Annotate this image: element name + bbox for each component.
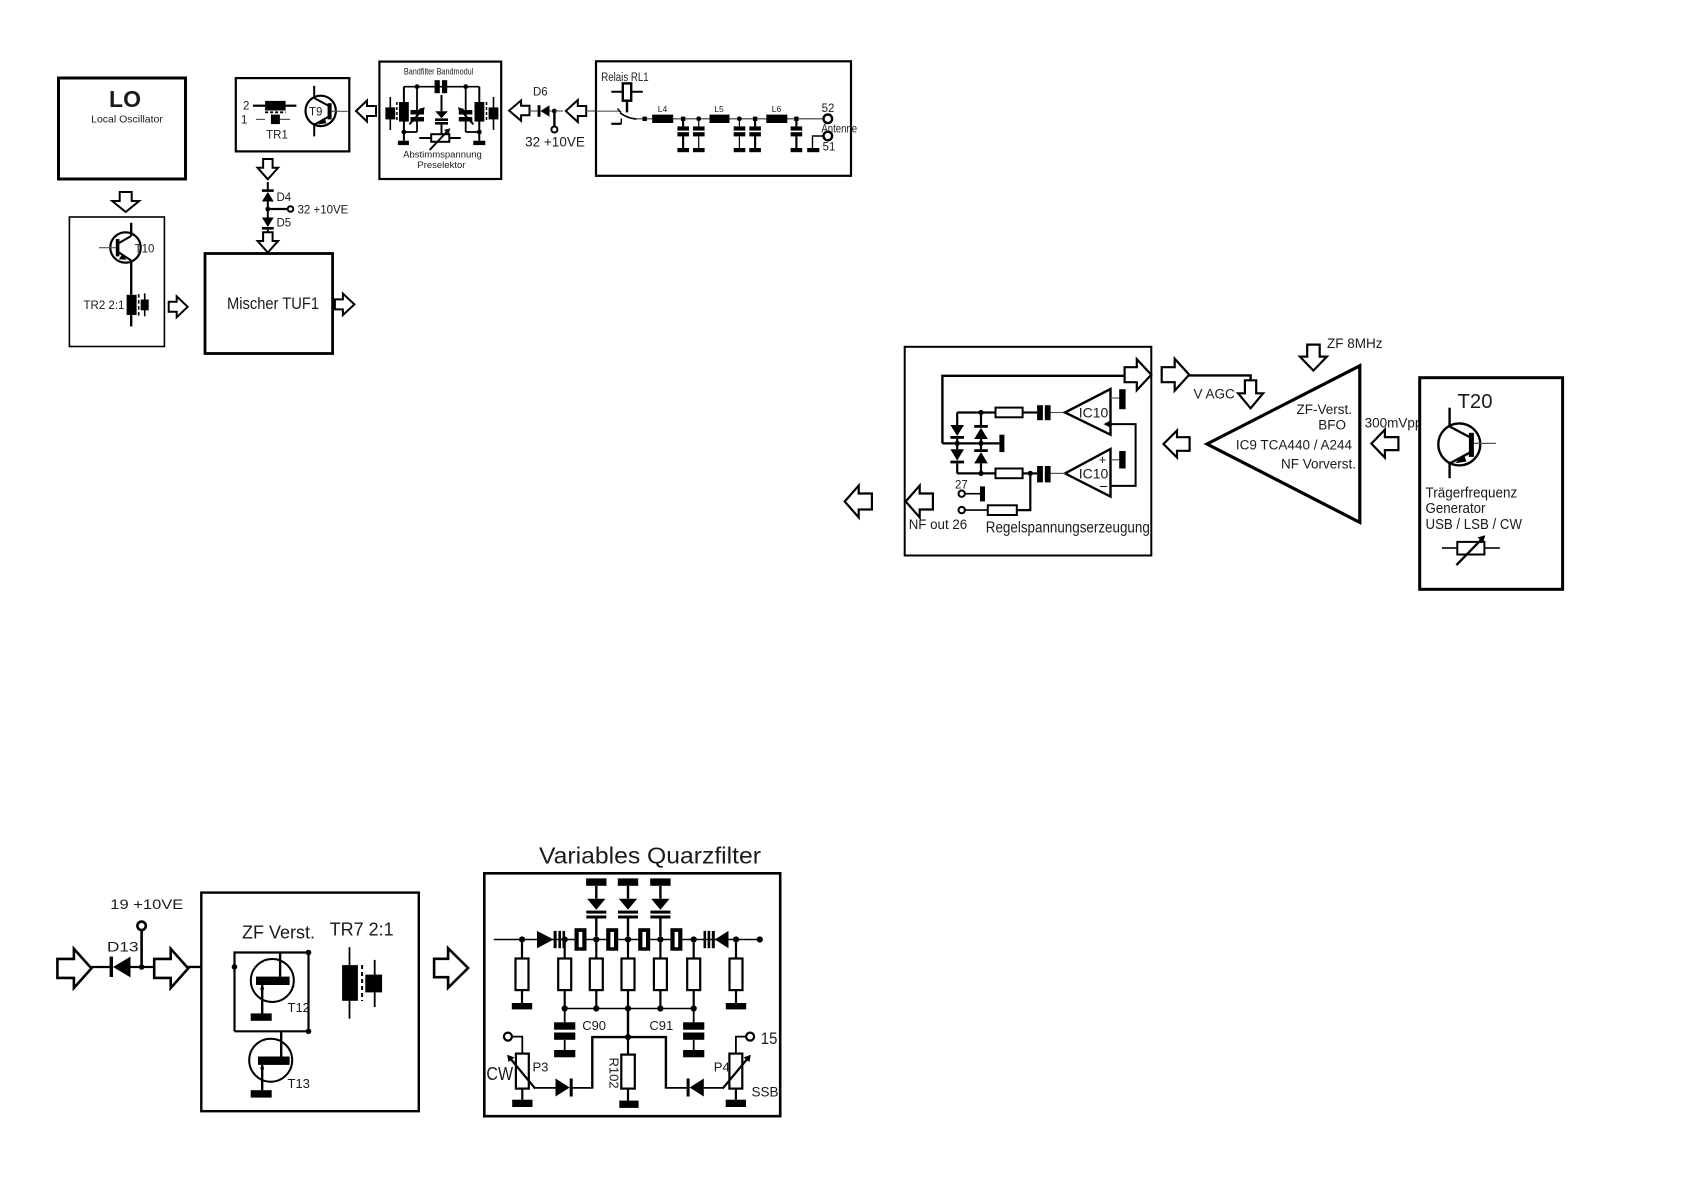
wire cascode frame — [235, 953, 309, 1032]
svg-text:T9: T9 — [309, 107, 322, 119]
op-amp IC10 lower — [1065, 449, 1111, 497]
wire arrow to D6 — [530, 110, 539, 112]
wire res to cap lower — [1023, 472, 1038, 474]
svg-text:TR7 2:1: TR7 2:1 — [330, 920, 394, 940]
varactor diode center — [435, 95, 448, 138]
wire opamp low input stub — [1111, 459, 1120, 461]
svg-text:15: 15 — [761, 1029, 778, 1048]
node right top — [463, 84, 468, 89]
diode D5 — [262, 209, 291, 233]
block Bandfilter Bandmodul — [379, 62, 501, 179]
svg-text:32 +10VE: 32 +10VE — [298, 205, 349, 217]
wire det top rail — [957, 411, 995, 413]
diode detector D-a1 — [950, 413, 964, 444]
node cap 1b — [696, 116, 701, 121]
svg-text:NF Vorverst.: NF Vorverst. — [1281, 457, 1356, 472]
wire into D4 — [267, 182, 269, 191]
wire to arrow2 — [142, 966, 155, 968]
capacitor shunt 3 — [791, 121, 803, 152]
node right bottom — [477, 130, 482, 135]
transformer TR2 2:1 — [84, 293, 149, 326]
svg-text:T13: T13 — [288, 1076, 310, 1091]
resistor R102 — [607, 1037, 635, 1101]
flow arrow IC9 out — [1164, 431, 1190, 458]
svg-text:C90: C90 — [582, 1018, 606, 1033]
node cap 2b — [753, 117, 757, 121]
svg-text:300mVpp: 300mVpp — [1365, 416, 1423, 431]
node after L5 — [737, 116, 742, 121]
capacitor coupling upper — [1037, 405, 1051, 420]
flow arrow into TR1 box — [356, 101, 376, 122]
node det bottom b — [978, 471, 983, 476]
node T13 drain — [306, 1029, 312, 1035]
block Variables Quarzfilter — [484, 873, 780, 1116]
capacitor mid rail — [999, 435, 1004, 452]
svg-text:V AGC: V AGC — [1194, 387, 1236, 402]
resistor term 26 — [988, 473, 1031, 515]
svg-text:Regelspannungserzeugung: Regelspannungserzeugung — [986, 520, 1150, 537]
node quartz line 2 — [562, 936, 568, 942]
flow arrow TR2 to Mischer — [169, 296, 188, 317]
svg-text:NF out 26: NF out 26 — [909, 517, 968, 532]
resistor shunt 6 — [687, 943, 700, 1009]
capacitor shunt 1b — [693, 121, 705, 152]
svg-text:T12: T12 — [288, 1000, 310, 1015]
node bias bus 3 — [625, 1005, 631, 1011]
ground resistor 1 — [512, 1003, 532, 1009]
capacitor C91 — [649, 1009, 704, 1058]
wire P3 wiper — [535, 1087, 555, 1089]
wire cap to opamp upper — [1051, 412, 1065, 414]
node after L4 — [681, 117, 685, 121]
flow arrow AGC out box edge — [1125, 359, 1152, 390]
wire opamp up input stub — [1111, 397, 1120, 399]
node after L6 — [794, 117, 798, 121]
crystal Q4 — [670, 928, 682, 951]
wire top rail bandfilter — [404, 86, 479, 88]
svg-text:P3: P3 — [533, 1060, 549, 1075]
node quartz out — [757, 936, 763, 942]
svg-text:2: 2 — [243, 101, 249, 113]
terminal 27 — [955, 480, 980, 497]
node lower branch — [1028, 471, 1033, 476]
svg-text:1: 1 — [241, 115, 247, 127]
ground P3 — [512, 1100, 532, 1107]
transistor T9 — [306, 86, 348, 137]
node before L4 — [643, 117, 647, 121]
node bias bus 5 — [691, 1005, 697, 1011]
node det top b — [978, 410, 983, 415]
wire AGC top rail — [942, 376, 1124, 444]
flow arrow LO to T10 block — [112, 192, 139, 212]
resistor upper — [996, 408, 1023, 418]
trimmer capacitor left — [409, 87, 424, 132]
flow arrow ZF Verst out — [434, 948, 468, 988]
feedback wire upper — [1104, 420, 1136, 486]
svg-text:D5: D5 — [277, 218, 292, 230]
capacitor opamp lower — [1119, 451, 1125, 469]
resistor lower — [996, 469, 1023, 479]
varactor stack 1 — [586, 878, 606, 936]
svg-text:Relais RL1: Relais RL1 — [601, 72, 648, 84]
wire res to cap upper — [1023, 411, 1038, 413]
wire quartz main line — [494, 939, 760, 941]
diode series right — [712, 931, 729, 948]
terminal 26 — [959, 507, 988, 513]
svg-text:+: + — [1099, 453, 1106, 467]
svg-text:TR1: TR1 — [266, 130, 288, 142]
terminal 51 — [823, 132, 836, 154]
svg-text:Variables Quarzfilter: Variables Quarzfilter — [539, 843, 761, 869]
potentiometer P4 — [714, 1054, 751, 1100]
flow arrow ZF input — [57, 949, 91, 988]
node bias bus 2 — [593, 1005, 599, 1011]
inductor L4 — [652, 104, 673, 123]
svg-text:51: 51 — [823, 142, 836, 154]
node D6 junction — [552, 109, 563, 114]
wire gnd right — [478, 132, 480, 141]
flow arrow AGC to VAGC — [1162, 359, 1190, 391]
node bias bus 4 — [657, 1005, 663, 1011]
potentiometer Abstimmspannung — [419, 128, 461, 150]
svg-text:CW: CW — [486, 1064, 513, 1084]
capacitor C90 — [554, 1009, 606, 1058]
svg-text:−: − — [1099, 479, 1108, 496]
svg-text:IC10: IC10 — [1079, 405, 1109, 421]
wire cap to opamp lower — [1051, 472, 1065, 474]
terminal 15 — [736, 1029, 777, 1054]
ground left — [398, 141, 409, 145]
capacitor coupling top — [435, 80, 448, 93]
flow arrow V AGC down — [1238, 380, 1263, 408]
node center tap — [625, 1034, 631, 1040]
varactor stack 2 — [618, 878, 638, 936]
block Relais antenna filter — [596, 61, 851, 176]
wire main line filter — [637, 118, 824, 120]
svg-text:L4: L4 — [658, 104, 668, 114]
capacitor shunt 2a — [734, 121, 746, 152]
svg-text:L6: L6 — [772, 104, 782, 114]
svg-text:SSB: SSB — [752, 1085, 779, 1100]
svg-text:D4: D4 — [277, 192, 292, 204]
capacitor shunt 1a — [677, 121, 689, 152]
flow arrow bandfilter input — [509, 100, 529, 120]
transistor T20 — [1438, 408, 1496, 479]
node det mid a — [955, 441, 960, 446]
transistor T10 — [99, 223, 154, 263]
capacitor term 27 — [980, 486, 985, 501]
ground T12 — [251, 1013, 272, 1020]
node quartz line 3 — [593, 936, 599, 942]
amplifier IC9 TCA440 triangle — [1207, 366, 1360, 523]
node T12 drain — [306, 950, 312, 956]
block T10 TR2 buffer — [69, 217, 164, 347]
wire left rail — [403, 87, 405, 132]
svg-text:T20: T20 — [1458, 391, 1493, 413]
resistor shunt 7 — [730, 943, 743, 1003]
op-amp IC10 upper — [1065, 389, 1111, 435]
relay coil RL1 — [611, 83, 643, 112]
diode detector D-b2 — [974, 443, 988, 473]
wire right rail — [478, 87, 480, 132]
capacitor coupling lower — [1037, 466, 1051, 482]
diode detector D-b1 — [974, 413, 988, 444]
ground P4 — [726, 1100, 746, 1107]
inductor L6 — [766, 104, 787, 123]
svg-text:Generator: Generator — [1426, 500, 1486, 517]
diode detector D-a2 — [950, 443, 964, 473]
ground T13 — [251, 1090, 272, 1097]
transformer right winding — [475, 97, 499, 130]
svg-text:Local Oscillator: Local Oscillator — [91, 114, 163, 126]
svg-text:ZF-Verst.: ZF-Verst. — [1296, 402, 1352, 417]
wire center tap heavy — [592, 1009, 666, 1089]
variable resistor T20 — [1442, 535, 1500, 565]
transformer left winding — [385, 97, 408, 130]
flow arrow NF out outer — [845, 486, 872, 518]
terminal 19 +10VE — [137, 922, 145, 967]
node quartz line 5 — [657, 936, 663, 942]
ground 51 — [807, 148, 819, 152]
terminal 52 — [822, 103, 835, 123]
svg-text:ZF 8MHz: ZF 8MHz — [1327, 336, 1383, 351]
flow arrow Mischer output — [335, 294, 355, 316]
flow arrow relais to D6 — [566, 100, 586, 122]
diode D4 — [262, 189, 292, 209]
inductor L5 — [710, 104, 730, 123]
resistor shunt 1 — [516, 943, 529, 1003]
svg-text:ZF Verst.: ZF Verst. — [242, 923, 315, 943]
block Regelspannungserzeugung — [905, 347, 1152, 556]
wire gnd left — [403, 132, 405, 141]
capacitor opamp upper — [1119, 389, 1125, 409]
node quartz line 6 — [691, 936, 697, 942]
flow arrow into ZF Verst — [154, 949, 188, 988]
svg-text:Preselektor: Preselektor — [417, 160, 465, 171]
transformer TR1 — [253, 101, 297, 142]
wire diode to P4 wiper — [704, 1087, 723, 1089]
svg-text:D6: D6 — [533, 87, 548, 99]
block Mischer TUF1 — [205, 254, 333, 354]
diode CW side — [556, 1079, 573, 1097]
wire into ZF box — [188, 966, 234, 968]
node quartz line 4 — [625, 936, 631, 942]
svg-text:R102: R102 — [607, 1058, 622, 1089]
node quartz line 1 — [519, 936, 525, 942]
terminal CW — [504, 1033, 522, 1054]
svg-text:LO: LO — [109, 86, 141, 112]
ground resistor 7 — [726, 1003, 746, 1009]
block LO Local Oscillator — [59, 78, 186, 179]
diode D13 — [107, 939, 142, 978]
node det mid b — [978, 441, 983, 446]
svg-text:C91: C91 — [649, 1018, 673, 1033]
svg-text:D13: D13 — [107, 939, 139, 955]
transformer TR7 — [342, 947, 382, 1019]
svg-text:L5: L5 — [714, 104, 724, 114]
svg-text:IC9 TCA440 / A244: IC9 TCA440 / A244 — [1236, 438, 1353, 453]
node left top — [415, 84, 420, 89]
resistor shunt 5 — [654, 943, 667, 1009]
resistor shunt 3 — [590, 943, 603, 1009]
relay switch contact — [596, 109, 637, 124]
wire T10 emitter to TR2 — [130, 261, 132, 295]
node bias bus 1 — [562, 1005, 568, 1011]
wire bottom left — [404, 131, 417, 133]
block ZF Verst — [201, 893, 418, 1112]
flow arrow ZF 8MHz down — [1300, 345, 1327, 371]
wire to D13 — [91, 966, 109, 968]
diode D6 — [533, 87, 552, 117]
wire relais edge — [586, 110, 597, 112]
terminal 32 +10VE — [525, 111, 585, 150]
potentiometer P3 — [507, 1054, 548, 1100]
capacitor series right — [704, 931, 711, 948]
wire V AGC — [1189, 375, 1250, 380]
wire center to diode right — [666, 1087, 687, 1089]
node quartz line 7 — [733, 936, 739, 942]
flow arrow NF out — [906, 486, 933, 518]
svg-text:32 +10VE: 32 +10VE — [525, 135, 585, 150]
capacitor series left — [558, 931, 565, 948]
svg-text:P4: P4 — [714, 1060, 730, 1075]
resistor shunt 4 — [622, 943, 635, 1009]
svg-text:Trägerfrequenz: Trägerfrequenz — [1426, 485, 1518, 502]
node left bottom — [402, 130, 407, 135]
wire bottom right — [466, 131, 480, 133]
svg-text:T10: T10 — [135, 244, 155, 256]
trimmer capacitor right — [458, 87, 473, 132]
wire 51 to ground — [813, 136, 824, 148]
svg-text:52: 52 — [822, 103, 835, 115]
svg-text:19 +10VE: 19 +10VE — [110, 896, 183, 912]
svg-text:Bandfilter Bandmodul: Bandfilter Bandmodul — [404, 67, 473, 78]
node 32 +10VE tap — [265, 205, 348, 217]
wire mid rail — [942, 442, 999, 444]
node D13 junction — [139, 964, 145, 970]
transistor T13 FET — [249, 1031, 310, 1091]
crystal Q3 — [638, 928, 650, 951]
transistor T12 FET — [251, 953, 310, 1016]
svg-text:TR2 2:1: TR2 2:1 — [84, 300, 125, 312]
svg-text:USB / LSB / CW: USB / LSB / CW — [1426, 516, 1523, 533]
wire bias bus — [565, 1008, 694, 1010]
flow arrow TR1 down — [258, 159, 279, 179]
block TR1 T9 preamp — [236, 78, 349, 151]
node input junction — [232, 964, 238, 970]
diode series left — [537, 931, 557, 948]
crystal Q1 — [575, 928, 587, 951]
capacitor shunt 2b — [749, 121, 761, 152]
ground R102 — [619, 1101, 638, 1108]
wire det bottom rail — [957, 472, 995, 474]
diode SSB side — [687, 1079, 704, 1097]
varactor stack 3 — [650, 878, 670, 936]
svg-text:BFO: BFO — [1318, 418, 1346, 433]
ground right — [473, 141, 485, 145]
flow arrow 300mVpp — [1371, 430, 1398, 458]
block T20 Traegerfrequenz Generator — [1420, 378, 1563, 590]
crystal Q2 — [606, 928, 618, 951]
svg-text:Mischer TUF1: Mischer TUF1 — [227, 295, 319, 313]
wire diode to center — [573, 1087, 593, 1089]
resistor shunt 2 — [558, 943, 571, 1009]
flow arrow into Mischer — [258, 232, 279, 252]
